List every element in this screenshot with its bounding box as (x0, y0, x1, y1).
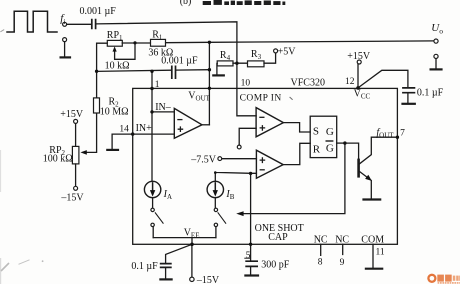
svg-text:R3: R3 (251, 49, 262, 61)
svg-text:R4: R4 (220, 50, 231, 62)
svg-text:14: 14 (119, 124, 129, 134)
svg-text:12: 12 (345, 77, 355, 87)
svg-text:RP1: RP1 (107, 30, 123, 42)
svg-text:S: S (313, 125, 319, 137)
svg-text:VEE: VEE (184, 228, 200, 240)
svg-text:0.001 µF: 0.001 µF (80, 6, 117, 17)
svg-text:1: 1 (155, 80, 160, 90)
svg-text:10 kΩ: 10 kΩ (105, 61, 130, 72)
svg-text:fi: fi (60, 13, 65, 26)
svg-text:IN–: IN– (155, 102, 172, 113)
svg-text:fOUT: fOUT (376, 128, 394, 140)
svg-text:0.1 µF: 0.1 µF (417, 87, 444, 98)
svg-text:COMP IN: COMP IN (240, 94, 282, 104)
svg-text:NC: NC (335, 235, 349, 246)
svg-text:IA: IA (163, 189, 172, 201)
svg-text:10: 10 (241, 78, 251, 88)
svg-text:IB: IB (225, 189, 234, 201)
svg-text:R: R (313, 143, 321, 155)
svg-text:+15V: +15V (60, 109, 84, 120)
svg-text:CAP: CAP (268, 232, 288, 243)
svg-text:–7.5V: –7.5V (190, 155, 217, 166)
svg-text:IN+: IN+ (136, 123, 153, 134)
svg-text:–15V: –15V (60, 192, 84, 203)
svg-text:Uo: Uo (431, 22, 443, 35)
svg-text:8: 8 (318, 257, 323, 267)
svg-text:–15V: –15V (196, 275, 220, 284)
svg-text:7: 7 (400, 128, 405, 138)
svg-text:(b): (b) (180, 0, 192, 7)
svg-text:VCC: VCC (354, 89, 371, 101)
svg-text:100 kΩ: 100 kΩ (43, 154, 73, 165)
svg-text:9: 9 (340, 258, 345, 268)
svg-text:COM: COM (361, 235, 384, 246)
svg-text:10 MΩ: 10 MΩ (100, 107, 129, 118)
svg-text:300 pF: 300 pF (261, 260, 290, 271)
svg-text:11: 11 (376, 248, 385, 258)
svg-text:0.1 µF: 0.1 µF (131, 261, 158, 272)
svg-text:R1: R1 (152, 29, 163, 41)
svg-text:VFC320: VFC320 (291, 77, 325, 88)
svg-text:5: 5 (246, 251, 251, 261)
svg-text:+5V: +5V (278, 46, 297, 57)
svg-text:G: G (326, 142, 334, 154)
svg-text:0.001 µF: 0.001 µF (161, 56, 198, 67)
svg-text:NC: NC (314, 235, 328, 246)
svg-text:G: G (326, 126, 334, 138)
svg-text:+15V: +15V (347, 51, 371, 62)
svg-text:VOUT: VOUT (188, 90, 210, 102)
